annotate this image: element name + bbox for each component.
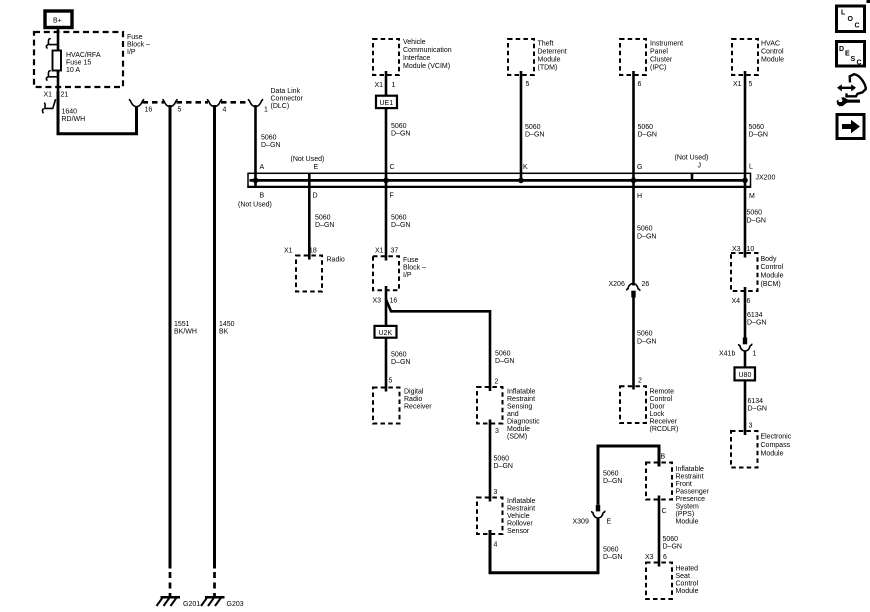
module PPS dashed box: [646, 463, 672, 500]
label SDM: [507, 388, 540, 440]
fuse HVAC/RFA Fuse 15 10A: [53, 50, 62, 73]
ground G203: [201, 596, 244, 608]
junction dot C: [383, 178, 389, 184]
svg-text:U2K: U2K: [379, 330, 393, 337]
svg-text:U80: U80: [739, 372, 752, 379]
wire rollover pin 4 to X309: [490, 518, 598, 573]
label 5060 D-GN (M): [747, 210, 766, 225]
svg-text:4: 4: [494, 541, 498, 548]
connector X41b pin: [743, 338, 747, 345]
svg-text:(PPS): (PPS): [676, 511, 695, 518]
svg-text:D–GN: D–GN: [391, 222, 410, 229]
label 5060 D-GN (G): [638, 124, 657, 139]
svg-text:Compass: Compass: [761, 442, 791, 449]
svg-text:Deterrent: Deterrent: [538, 48, 567, 55]
wire fuse block X3-16 down to U2K: [385, 286, 388, 326]
wire UE1 to bus C and down to fuse block: [385, 108, 388, 260]
label Heated Seat Control Module: [676, 565, 699, 595]
junction dot K: [518, 178, 524, 184]
junction dot L: [742, 178, 748, 184]
svg-text:BK: BK: [219, 329, 229, 336]
svg-text:2: 2: [638, 377, 642, 384]
wire U80 to compass module: [744, 380, 747, 435]
label PPS module: [676, 466, 710, 526]
svg-text:Diagnostic: Diagnostic: [507, 418, 540, 425]
DLC pin 4 cup: [207, 99, 222, 107]
svg-text:UE1: UE1: [380, 100, 394, 107]
DLC pin 1 cup: [248, 99, 263, 107]
VCIM pin labels X1 1: [375, 82, 396, 89]
fuse block I/P label: [127, 34, 150, 56]
svg-text:Cluster: Cluster: [650, 56, 673, 63]
svg-text:G201: G201: [183, 601, 200, 608]
wire B+ to fuse: [57, 28, 60, 53]
svg-text:6134: 6134: [748, 398, 764, 405]
clip terminal above fuse: [46, 39, 58, 49]
fuse block I/P dashed box (lower): [373, 256, 399, 290]
svg-text:L: L: [841, 9, 846, 16]
svg-text:Block –: Block –: [127, 42, 150, 49]
svg-text:1: 1: [264, 107, 268, 114]
svg-text:J: J: [698, 163, 702, 170]
svg-text:Control: Control: [761, 48, 784, 55]
fuse U2K box: [375, 326, 397, 338]
label VCIM: [403, 39, 452, 70]
svg-text:X309: X309: [573, 519, 589, 526]
corner tick: [867, 0, 870, 3]
heated seat pin labels X3 6: [645, 554, 667, 561]
Radio pin labels X1 18: [284, 247, 317, 254]
svg-text:E: E: [314, 164, 319, 171]
svg-text:5060: 5060: [603, 547, 619, 554]
svg-text:5060: 5060: [637, 331, 653, 338]
label 5060 D-GN (below U2K): [391, 351, 410, 366]
svg-text:6: 6: [747, 298, 751, 305]
module Digital Radio Receiver dashed box: [373, 388, 400, 424]
svg-text:I/P: I/P: [403, 272, 412, 279]
svg-text:D–GN: D–GN: [637, 339, 656, 346]
svg-text:Passenger: Passenger: [676, 488, 710, 495]
connector X41b cup: [739, 344, 752, 351]
svg-text:C: C: [857, 60, 862, 67]
svg-text:X206: X206: [609, 281, 625, 288]
module Heated Seat Control dashed box: [646, 563, 672, 600]
svg-text:10: 10: [747, 246, 755, 253]
svg-text:5060: 5060: [261, 134, 277, 141]
svg-text:Module: Module: [761, 273, 784, 280]
label Digital Radio Receiver: [404, 389, 432, 411]
svg-text:Module (VCIM): Module (VCIM): [403, 63, 450, 70]
svg-text:(Not Used): (Not Used): [291, 156, 325, 163]
connector X1 pin 21 labels: [44, 91, 69, 98]
svg-text:E: E: [607, 519, 612, 526]
ground G201: [157, 596, 201, 608]
module Rollover Sensor dashed box: [477, 498, 503, 535]
svg-text:X1: X1: [733, 81, 742, 88]
svg-text:C: C: [662, 508, 667, 515]
B+ battery feed symbol: [45, 11, 72, 28]
svg-text:1640: 1640: [62, 108, 78, 115]
svg-text:C: C: [390, 164, 395, 171]
HVAC pin labels X1 5: [733, 81, 753, 88]
svg-text:D–GN: D–GN: [391, 131, 410, 138]
svg-text:B: B: [260, 192, 265, 199]
svg-text:5: 5: [749, 81, 753, 88]
svg-text:Vehicle: Vehicle: [507, 513, 530, 520]
svg-text:4: 4: [223, 107, 227, 114]
svg-text:Inflatable: Inflatable: [507, 498, 536, 505]
node E (Not Used): [291, 156, 325, 171]
svg-text:X3: X3: [645, 554, 654, 561]
svg-text:1450: 1450: [219, 321, 235, 328]
label TDM: [538, 40, 567, 71]
junction dot A: [253, 178, 259, 184]
svg-text:D–GN: D–GN: [637, 234, 656, 241]
svg-text:Seat: Seat: [676, 573, 690, 580]
svg-text:D–GN: D–GN: [638, 132, 657, 139]
DLC pin 5 cup: [163, 99, 178, 107]
svg-text:X1: X1: [375, 248, 384, 255]
wire bus D to Radio: [308, 173, 311, 259]
fuse block X3 16 pin labels: [373, 297, 398, 304]
label 5060 D-GN (C above bus): [391, 123, 410, 138]
svg-text:(IPC): (IPC): [650, 64, 666, 71]
svg-text:21: 21: [61, 91, 69, 98]
svg-text:X1: X1: [44, 91, 53, 98]
svg-text:D–GN: D–GN: [261, 142, 280, 149]
label 5060 D-GN (pin 1): [261, 134, 280, 149]
svg-text:(SDM): (SDM): [507, 433, 527, 440]
wire HVAC pin 5 to bus L: [744, 71, 747, 187]
svg-text:5060: 5060: [494, 456, 510, 463]
svg-text:F: F: [390, 192, 394, 199]
svg-text:D: D: [313, 192, 318, 199]
svg-text:Control: Control: [761, 264, 784, 271]
svg-text:Sensing: Sensing: [507, 403, 532, 410]
svg-text:(Not Used): (Not Used): [238, 202, 272, 209]
wire fuse to X1 exit: [57, 71, 60, 91]
svg-text:D–GN: D–GN: [603, 554, 622, 561]
DLC pin 16 cup: [129, 99, 144, 107]
module Radio dashed box: [296, 256, 322, 292]
svg-text:Data Link: Data Link: [271, 88, 301, 95]
svg-text:6134: 6134: [747, 312, 763, 319]
label 5060 D-GN (PPS to heated seat): [663, 536, 682, 551]
module TDM dashed box: [508, 39, 534, 75]
label HVAC Control Module: [761, 40, 784, 63]
X309 labels: [573, 519, 612, 526]
wire 1640 RD/WH: [58, 91, 137, 134]
svg-text:D: D: [839, 46, 844, 53]
svg-text:G: G: [637, 164, 642, 171]
svg-text:Panel: Panel: [650, 48, 668, 55]
svg-text:O: O: [848, 16, 854, 23]
svg-text:Interface: Interface: [403, 55, 430, 62]
svg-text:5060: 5060: [663, 536, 679, 543]
svg-text:Body: Body: [761, 256, 777, 263]
label 5060 D-GN (H): [637, 226, 656, 241]
svg-text:D–GN: D–GN: [494, 463, 513, 470]
Data Link Connector (DLC) label: [271, 88, 304, 110]
wire X309 up and over to PPS pin B: [598, 446, 659, 505]
splice pack bus wire: [250, 179, 747, 182]
icon forward arrow box: [837, 115, 864, 139]
svg-text:10 A: 10 A: [66, 67, 80, 74]
wire bus M down to BCM: [744, 187, 747, 258]
svg-text:(BCM): (BCM): [761, 281, 781, 288]
svg-text:S: S: [851, 56, 856, 63]
wire J stub: [691, 173, 694, 180]
svg-text:D–GN: D–GN: [749, 132, 768, 139]
svg-text:5060: 5060: [391, 123, 407, 130]
connector X206 pin: [631, 291, 635, 298]
label 1551 BK/WH: [174, 321, 197, 336]
svg-text:Digital: Digital: [404, 389, 424, 396]
label 5060 D-GN (X206 to RCDLR): [637, 331, 656, 346]
wire TDM pin 5 to bus K: [520, 71, 523, 180]
svg-text:Fuse: Fuse: [127, 34, 143, 41]
svg-text:5060: 5060: [525, 124, 541, 131]
icon DESC box: [837, 42, 865, 67]
connector X309 cup: [592, 511, 605, 518]
svg-text:H: H: [637, 193, 642, 200]
X41b labels: [719, 350, 757, 357]
svg-text:1551: 1551: [174, 321, 190, 328]
svg-text:Presence: Presence: [676, 496, 706, 503]
X206 labels: [609, 281, 650, 288]
svg-text:5060: 5060: [495, 350, 511, 357]
svg-text:Fuse: Fuse: [403, 257, 419, 264]
svg-text:Lock: Lock: [650, 411, 665, 418]
svg-text:G203: G203: [227, 601, 244, 608]
svg-text:Vehicle: Vehicle: [403, 39, 426, 46]
svg-text:D–GN: D–GN: [663, 544, 682, 551]
svg-text:5060: 5060: [315, 215, 331, 222]
label 5060 D-GN (below X309): [603, 547, 622, 562]
BCM pin labels X4 6: [732, 298, 751, 305]
wire VCIM pin 1 to UE1: [385, 71, 388, 96]
svg-text:5: 5: [526, 81, 530, 88]
svg-text:I/P: I/P: [127, 49, 136, 56]
label 5060 D-GN (L): [749, 124, 768, 139]
svg-text:X3: X3: [732, 246, 741, 253]
svg-text:C: C: [855, 23, 860, 30]
label IPC: [650, 40, 683, 71]
svg-text:Restraint: Restraint: [507, 396, 535, 403]
svg-text:Control: Control: [650, 396, 673, 403]
svg-text:X41b: X41b: [719, 350, 735, 357]
module Electronic Compass dashed box: [731, 431, 758, 468]
svg-text:E: E: [845, 51, 850, 58]
svg-text:D–GN: D–GN: [747, 218, 766, 225]
module BCM dashed box: [731, 253, 758, 291]
svg-text:and: and: [507, 411, 519, 418]
svg-text:X1: X1: [375, 82, 384, 89]
DLC pin number labels: [145, 107, 269, 114]
fuse block I/P pin labels X1 37: [375, 248, 398, 255]
svg-text:26: 26: [642, 281, 650, 288]
connector X309 pin: [596, 505, 600, 512]
label 5060 D-GN (K): [525, 124, 544, 139]
connector X206 cup: [627, 284, 640, 291]
label Fuse Block I/P (lower): [403, 257, 426, 279]
svg-text:A: A: [260, 164, 265, 171]
svg-text:Module: Module: [761, 450, 784, 457]
svg-text:(TDM): (TDM): [538, 64, 558, 71]
svg-text:Rollover: Rollover: [507, 521, 533, 528]
svg-text:5: 5: [389, 377, 393, 384]
label 6134 D-GN: [747, 312, 766, 327]
clip terminal at X1: [42, 99, 55, 113]
svg-text:3: 3: [494, 489, 498, 496]
label 5060 D-GN (D): [315, 215, 334, 230]
svg-text:Remote: Remote: [650, 388, 675, 395]
svg-text:5060: 5060: [637, 226, 653, 233]
node J (Not Used): [675, 155, 709, 170]
wire IPC pin 6 to bus G: [632, 71, 635, 187]
svg-text:Fuse 15: Fuse 15: [66, 60, 91, 67]
svg-text:Module: Module: [761, 56, 784, 63]
DLC dashed connector line: [143, 101, 250, 104]
wire PPS pin C to heated seat module: [658, 496, 661, 567]
wire 1450 BK (DLC pin 4 to G203): [213, 105, 216, 569]
svg-text:Module: Module: [676, 588, 699, 595]
wire bus H down to X206: [632, 187, 635, 286]
svg-text:6: 6: [638, 81, 642, 88]
svg-text:X4: X4: [732, 298, 741, 305]
svg-text:RD/WH: RD/WH: [62, 116, 86, 123]
fuse UE1 box: [376, 96, 397, 108]
svg-text:Sensor: Sensor: [507, 528, 530, 535]
svg-text:Inflatable: Inflatable: [676, 466, 705, 473]
label 6134 D-GN (below U80): [748, 398, 767, 413]
BCM pin labels X3 10: [732, 246, 754, 253]
svg-text:5060: 5060: [749, 124, 765, 131]
svg-text:5060: 5060: [638, 124, 654, 131]
svg-text:System: System: [676, 503, 700, 510]
node B (Not Used): [238, 192, 272, 208]
svg-text:BK/WH: BK/WH: [174, 329, 197, 336]
label 5060 D-GN (SDM to rollover): [494, 456, 513, 471]
svg-text:Control: Control: [676, 580, 699, 587]
svg-text:L: L: [749, 163, 753, 170]
svg-text:5060: 5060: [391, 215, 407, 222]
svg-text:3: 3: [749, 423, 753, 430]
svg-text:D–GN: D–GN: [747, 320, 766, 327]
label 1640 RD/WH: [62, 108, 86, 123]
svg-text:37: 37: [391, 248, 399, 255]
svg-text:Front: Front: [676, 481, 692, 488]
svg-text:Door: Door: [650, 403, 666, 410]
svg-text:Electronic: Electronic: [761, 433, 792, 440]
label RCDLR: [650, 388, 679, 433]
module RCDLR dashed box: [620, 386, 646, 423]
fuse block I/P dashed box (top): [34, 32, 123, 87]
icon connector-tool: [837, 74, 866, 106]
svg-text:(RCDLR): (RCDLR): [650, 426, 679, 433]
svg-text:HVAC: HVAC: [761, 40, 780, 47]
svg-text:JX200: JX200: [756, 175, 776, 182]
svg-text:(DLC): (DLC): [271, 103, 290, 110]
fuse value label: [66, 52, 101, 74]
svg-text:M: M: [749, 193, 755, 200]
svg-text:Instrument: Instrument: [650, 40, 683, 47]
label Electronic Compass Module: [761, 433, 792, 457]
svg-text:B+: B+: [53, 18, 62, 25]
svg-text:Restraint: Restraint: [676, 473, 704, 480]
svg-text:D–GN: D–GN: [391, 359, 410, 366]
wire 1551 BK/WH (DLC pin 5 to G201): [169, 105, 172, 569]
label Inflatable Restraint Vehicle Rollover Sensor: [507, 498, 536, 535]
svg-text:HVAC/RFA: HVAC/RFA: [66, 52, 101, 59]
label 5060 D-GN (F): [391, 215, 410, 230]
svg-text:D–GN: D–GN: [525, 132, 544, 139]
svg-text:K: K: [523, 164, 528, 171]
svg-text:Receiver: Receiver: [650, 418, 678, 425]
svg-text:Module: Module: [676, 518, 699, 525]
svg-text:3: 3: [495, 428, 499, 435]
svg-text:D–GN: D–GN: [495, 358, 514, 365]
splice pack JX200 housing: [248, 173, 751, 186]
svg-text:16: 16: [390, 297, 398, 304]
svg-text:(Not Used): (Not Used): [675, 155, 709, 162]
wire DLC pin1 to splice pack A: [254, 105, 257, 187]
fuse U80 box: [735, 367, 756, 380]
svg-text:D–GN: D–GN: [315, 222, 334, 229]
label 5060 D-GN (above X309): [603, 471, 622, 486]
svg-text:Restraint: Restraint: [507, 506, 535, 513]
svg-text:Inflatable: Inflatable: [507, 388, 536, 395]
wire X41b to U80: [744, 350, 747, 367]
svg-text:Module: Module: [507, 426, 530, 433]
svg-text:16: 16: [145, 107, 153, 114]
svg-text:Radio: Radio: [327, 257, 345, 264]
wire U2K to Digital Radio Receiver: [385, 338, 388, 392]
svg-text:18: 18: [309, 247, 317, 254]
svg-text:Communication: Communication: [403, 47, 452, 54]
svg-text:X3: X3: [373, 297, 382, 304]
module IPC dashed box: [620, 39, 646, 75]
svg-text:5060: 5060: [391, 351, 407, 358]
module HVAC Control dashed box: [732, 39, 758, 75]
svg-text:Module: Module: [538, 56, 561, 63]
svg-text:2: 2: [495, 379, 499, 386]
svg-text:1: 1: [392, 82, 396, 89]
icon LOC box: [837, 6, 865, 32]
wire X206 to RCDLR: [632, 298, 635, 390]
svg-text:X1: X1: [284, 247, 293, 254]
svg-text:Connector: Connector: [271, 96, 304, 103]
label BCM: [761, 256, 784, 288]
svg-text:Receiver: Receiver: [404, 404, 432, 411]
svg-text:1: 1: [753, 350, 757, 357]
svg-text:Block –: Block –: [403, 265, 426, 272]
svg-text:D–GN: D–GN: [603, 478, 622, 485]
wire BCM X4-6 to X41b: [744, 287, 747, 338]
svg-text:B: B: [661, 453, 666, 460]
svg-text:5060: 5060: [603, 471, 619, 478]
label 5060 D-GN (SDM branch): [495, 350, 514, 365]
svg-text:Radio: Radio: [404, 396, 422, 403]
svg-text:5060: 5060: [747, 210, 763, 217]
svg-text:6: 6: [663, 554, 667, 561]
svg-text:Theft: Theft: [538, 40, 554, 47]
wire branch to SDM: [386, 300, 490, 392]
svg-text:Heated: Heated: [676, 565, 699, 572]
svg-text:D–GN: D–GN: [748, 406, 767, 413]
wire SDM to rollover sensor: [489, 420, 492, 502]
junction dot G: [631, 178, 637, 184]
